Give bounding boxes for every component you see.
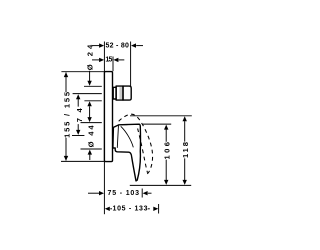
diverter knob cap — [123, 86, 131, 100]
lever handle raised position (dashed) inner edge — [138, 129, 148, 173]
wall plate (escutcheon, side view) — [104, 72, 112, 162]
extension line handle top — [143, 123, 172, 125]
svg-text:75 - 103: 75 - 103 — [108, 190, 140, 197]
extension line plate top — [61, 71, 104, 73]
handle base divider — [117, 125, 118, 148]
dim O24 upper arrow — [89, 71, 91, 81]
diverter knob body — [116, 86, 123, 100]
dim 15 — [92, 59, 99, 61]
svg-text:118: 118 — [181, 142, 190, 158]
extension line raised handle top — [130, 115, 192, 117]
extension line wall plane bottom — [103, 162, 105, 214]
svg-text:105 - 133: 105 - 133 — [113, 206, 148, 213]
svg-text:Ø 44: Ø 44 — [86, 125, 95, 148]
extension line plate bottom — [61, 160, 104, 162]
tick 105-133 right — [158, 204, 160, 214]
dim O44 lower arrow — [89, 154, 91, 160]
extension line knob face — [130, 42, 132, 87]
extension line knob bottom — [84, 100, 101, 102]
svg-text:155 / 155: 155 / 155 — [63, 91, 72, 138]
dim 106 line — [165, 129, 167, 180]
dim 155/155 line — [65, 73, 67, 161]
extension line handle boss bottom — [81, 148, 102, 150]
lever handle raised position (dashed) outer edge — [119, 114, 153, 175]
svg-text:106: 106 — [163, 142, 172, 160]
svg-text:52 - 80: 52 - 80 — [105, 42, 129, 49]
diverter knob shading — [119, 87, 122, 99]
svg-text:Ø 24: Ø 24 — [85, 44, 94, 70]
dim 105-133 — [105, 207, 110, 211]
svg-text:15: 15 — [105, 57, 112, 64]
extension line knob axis — [73, 93, 102, 95]
extension line knob top — [84, 85, 102, 87]
baseline reference — [130, 184, 191, 186]
extension line handle boss top — [81, 122, 102, 124]
handle crease — [121, 127, 133, 147]
extension line plate front top — [112, 57, 114, 72]
dim 52-80 — [92, 45, 99, 47]
dim O24 lower arrow / O44 upper arrow shared line — [89, 106, 91, 117]
tick 75-103 right — [141, 189, 143, 198]
dim 75-103 — [88, 192, 99, 194]
dim 118 line — [184, 121, 186, 180]
extension line handle axis — [72, 135, 84, 137]
lever handle outline — [113, 124, 141, 181]
extension line wall plane top — [103, 42, 105, 72]
dim 74 line — [77, 99, 79, 130]
diverter knob neck — [113, 87, 116, 99]
